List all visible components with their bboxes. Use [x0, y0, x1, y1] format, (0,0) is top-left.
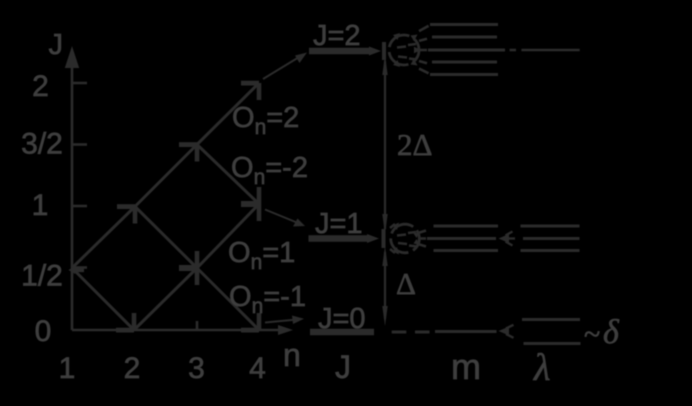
svg-text:J: J	[49, 29, 64, 61]
svg-text:On=-1: On=-1	[229, 281, 306, 318]
svg-text:J=2: J=2	[313, 20, 361, 52]
svg-text:3: 3	[188, 352, 205, 385]
svg-text:J=0: J=0	[318, 303, 366, 335]
svg-text:1: 1	[59, 352, 76, 385]
svg-text:1: 1	[32, 189, 49, 222]
svg-text:~: ~	[584, 318, 600, 351]
svg-text:J: J	[335, 349, 351, 385]
svg-text:On=1: On=1	[228, 237, 295, 274]
svg-text:4: 4	[249, 352, 266, 385]
svg-text:m: m	[451, 346, 481, 387]
svg-text:Δ: Δ	[396, 266, 416, 301]
svg-text:On=2: On=2	[232, 102, 299, 139]
svg-text:On=-2: On=-2	[231, 152, 308, 189]
svg-text:n: n	[283, 337, 301, 373]
svg-text:λ: λ	[533, 347, 550, 389]
svg-text:δ: δ	[603, 314, 620, 351]
svg-text:2Δ: 2Δ	[397, 127, 432, 162]
svg-text:1/2: 1/2	[21, 260, 63, 293]
svg-text:3/2: 3/2	[21, 128, 63, 161]
svg-text:0: 0	[35, 315, 52, 348]
svg-text:2: 2	[124, 352, 141, 385]
svg-text:J=1: J=1	[315, 208, 363, 240]
svg-text:2: 2	[32, 70, 49, 103]
